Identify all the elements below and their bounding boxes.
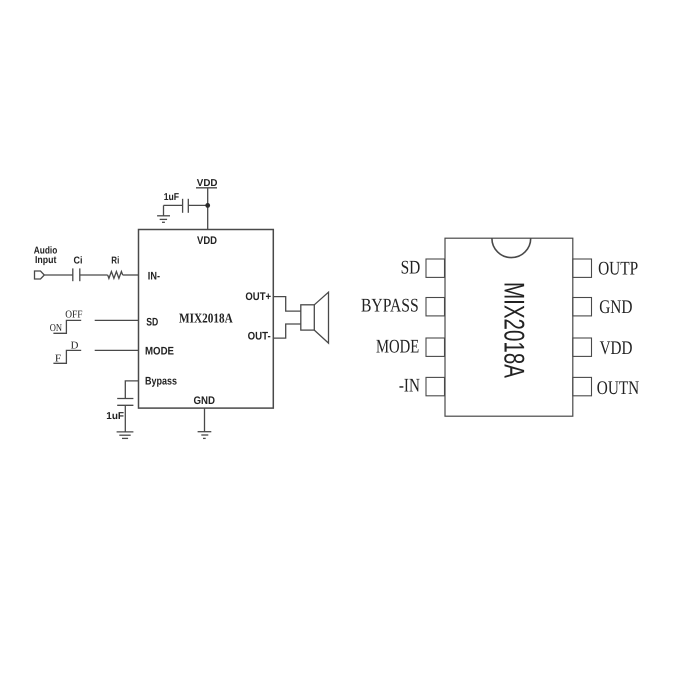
svg-text:MIX2018A: MIX2018A bbox=[497, 282, 529, 378]
svg-text:D: D bbox=[71, 340, 79, 351]
svg-text:OUT+: OUT+ bbox=[245, 291, 271, 303]
svg-text:1uF: 1uF bbox=[106, 411, 124, 422]
svg-text:Ci: Ci bbox=[74, 255, 83, 266]
svg-text:MIX2018A: MIX2018A bbox=[179, 310, 233, 325]
svg-text:IN-: IN- bbox=[148, 270, 160, 282]
svg-text:1uF: 1uF bbox=[164, 192, 179, 203]
svg-text:SD: SD bbox=[146, 317, 158, 329]
svg-text:SD: SD bbox=[401, 258, 421, 279]
svg-text:OUT-: OUT- bbox=[248, 330, 271, 342]
svg-text:MODE: MODE bbox=[376, 336, 419, 357]
svg-text:MODE: MODE bbox=[145, 345, 174, 357]
svg-text:OUTP: OUTP bbox=[598, 259, 638, 280]
svg-text:GND: GND bbox=[194, 395, 216, 407]
svg-text:Bypass: Bypass bbox=[145, 375, 177, 387]
svg-text:ON: ON bbox=[50, 323, 63, 334]
svg-text:VDD: VDD bbox=[197, 178, 218, 189]
svg-text:Input: Input bbox=[35, 255, 57, 266]
svg-text:VDD: VDD bbox=[600, 338, 633, 359]
svg-text:VDD: VDD bbox=[197, 235, 217, 247]
svg-text:-IN: -IN bbox=[399, 375, 420, 396]
svg-text:GND: GND bbox=[599, 297, 632, 318]
svg-text:BYPASS: BYPASS bbox=[361, 296, 419, 317]
svg-text:Ri: Ri bbox=[111, 255, 119, 266]
svg-text:F: F bbox=[55, 354, 61, 365]
svg-text:OUTN: OUTN bbox=[597, 378, 639, 399]
svg-text:OFF: OFF bbox=[65, 310, 82, 321]
